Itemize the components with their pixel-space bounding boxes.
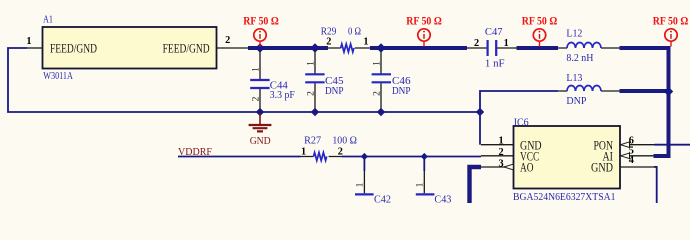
svg-text:1: 1	[356, 182, 366, 187]
svg-text:1: 1	[26, 36, 31, 47]
svg-text:1: 1	[301, 147, 306, 158]
svg-text:FEED/GND: FEED/GND	[50, 40, 97, 55]
svg-text:1: 1	[306, 61, 316, 66]
svg-text:W3011A: W3011A	[43, 70, 73, 82]
svg-text:BGA524N6E6327XTSA1: BGA524N6E6327XTSA1	[513, 191, 616, 203]
svg-text:1: 1	[372, 61, 382, 66]
svg-text:1: 1	[251, 67, 261, 72]
svg-text:L13: L13	[566, 72, 582, 84]
svg-text:DNP: DNP	[566, 95, 586, 107]
svg-text:4: 4	[629, 155, 634, 166]
svg-text:100 Ω: 100 Ω	[332, 134, 357, 146]
svg-text:1: 1	[498, 136, 503, 147]
svg-text:RF 50 Ω: RF 50 Ω	[522, 15, 558, 27]
svg-text:C47: C47	[485, 26, 503, 38]
svg-text:GND: GND	[591, 159, 613, 174]
svg-text:IC6: IC6	[514, 116, 530, 128]
svg-text:8.2 nH: 8.2 nH	[566, 52, 593, 64]
svg-text:3.3 pF: 3.3 pF	[270, 89, 295, 101]
svg-text:L12: L12	[566, 27, 582, 39]
svg-text:C42: C42	[374, 193, 391, 203]
svg-text:2: 2	[498, 147, 503, 158]
svg-text:C43: C43	[434, 193, 451, 203]
svg-text:2: 2	[372, 91, 382, 96]
svg-text:GND: GND	[250, 135, 271, 147]
svg-text:1 nF: 1 nF	[485, 57, 505, 69]
svg-text:R27: R27	[304, 134, 322, 146]
svg-text:A1: A1	[43, 13, 53, 25]
svg-text:VDDRF: VDDRF	[178, 146, 212, 158]
svg-text:RF 50 Ω: RF 50 Ω	[406, 15, 442, 27]
svg-text:2: 2	[225, 35, 230, 46]
svg-text:RF 50 Ω: RF 50 Ω	[243, 15, 279, 27]
svg-text:2: 2	[306, 91, 316, 96]
svg-text:2: 2	[251, 96, 261, 101]
svg-text:FEED/GND: FEED/GND	[163, 40, 210, 55]
svg-text:2: 2	[338, 147, 343, 158]
svg-text:R29: R29	[321, 25, 337, 37]
svg-text:DNP: DNP	[392, 85, 411, 97]
svg-text:DNP: DNP	[325, 85, 344, 97]
svg-text:AO: AO	[520, 159, 534, 174]
svg-text:1: 1	[416, 182, 426, 187]
svg-text:2: 2	[326, 37, 331, 48]
svg-text:1: 1	[504, 38, 509, 49]
svg-text:0 Ω: 0 Ω	[348, 25, 361, 37]
svg-text:3: 3	[498, 158, 503, 169]
svg-text:RF 50 Ω: RF 50 Ω	[653, 15, 689, 27]
svg-text:1: 1	[363, 36, 368, 47]
svg-text:2: 2	[474, 38, 479, 49]
